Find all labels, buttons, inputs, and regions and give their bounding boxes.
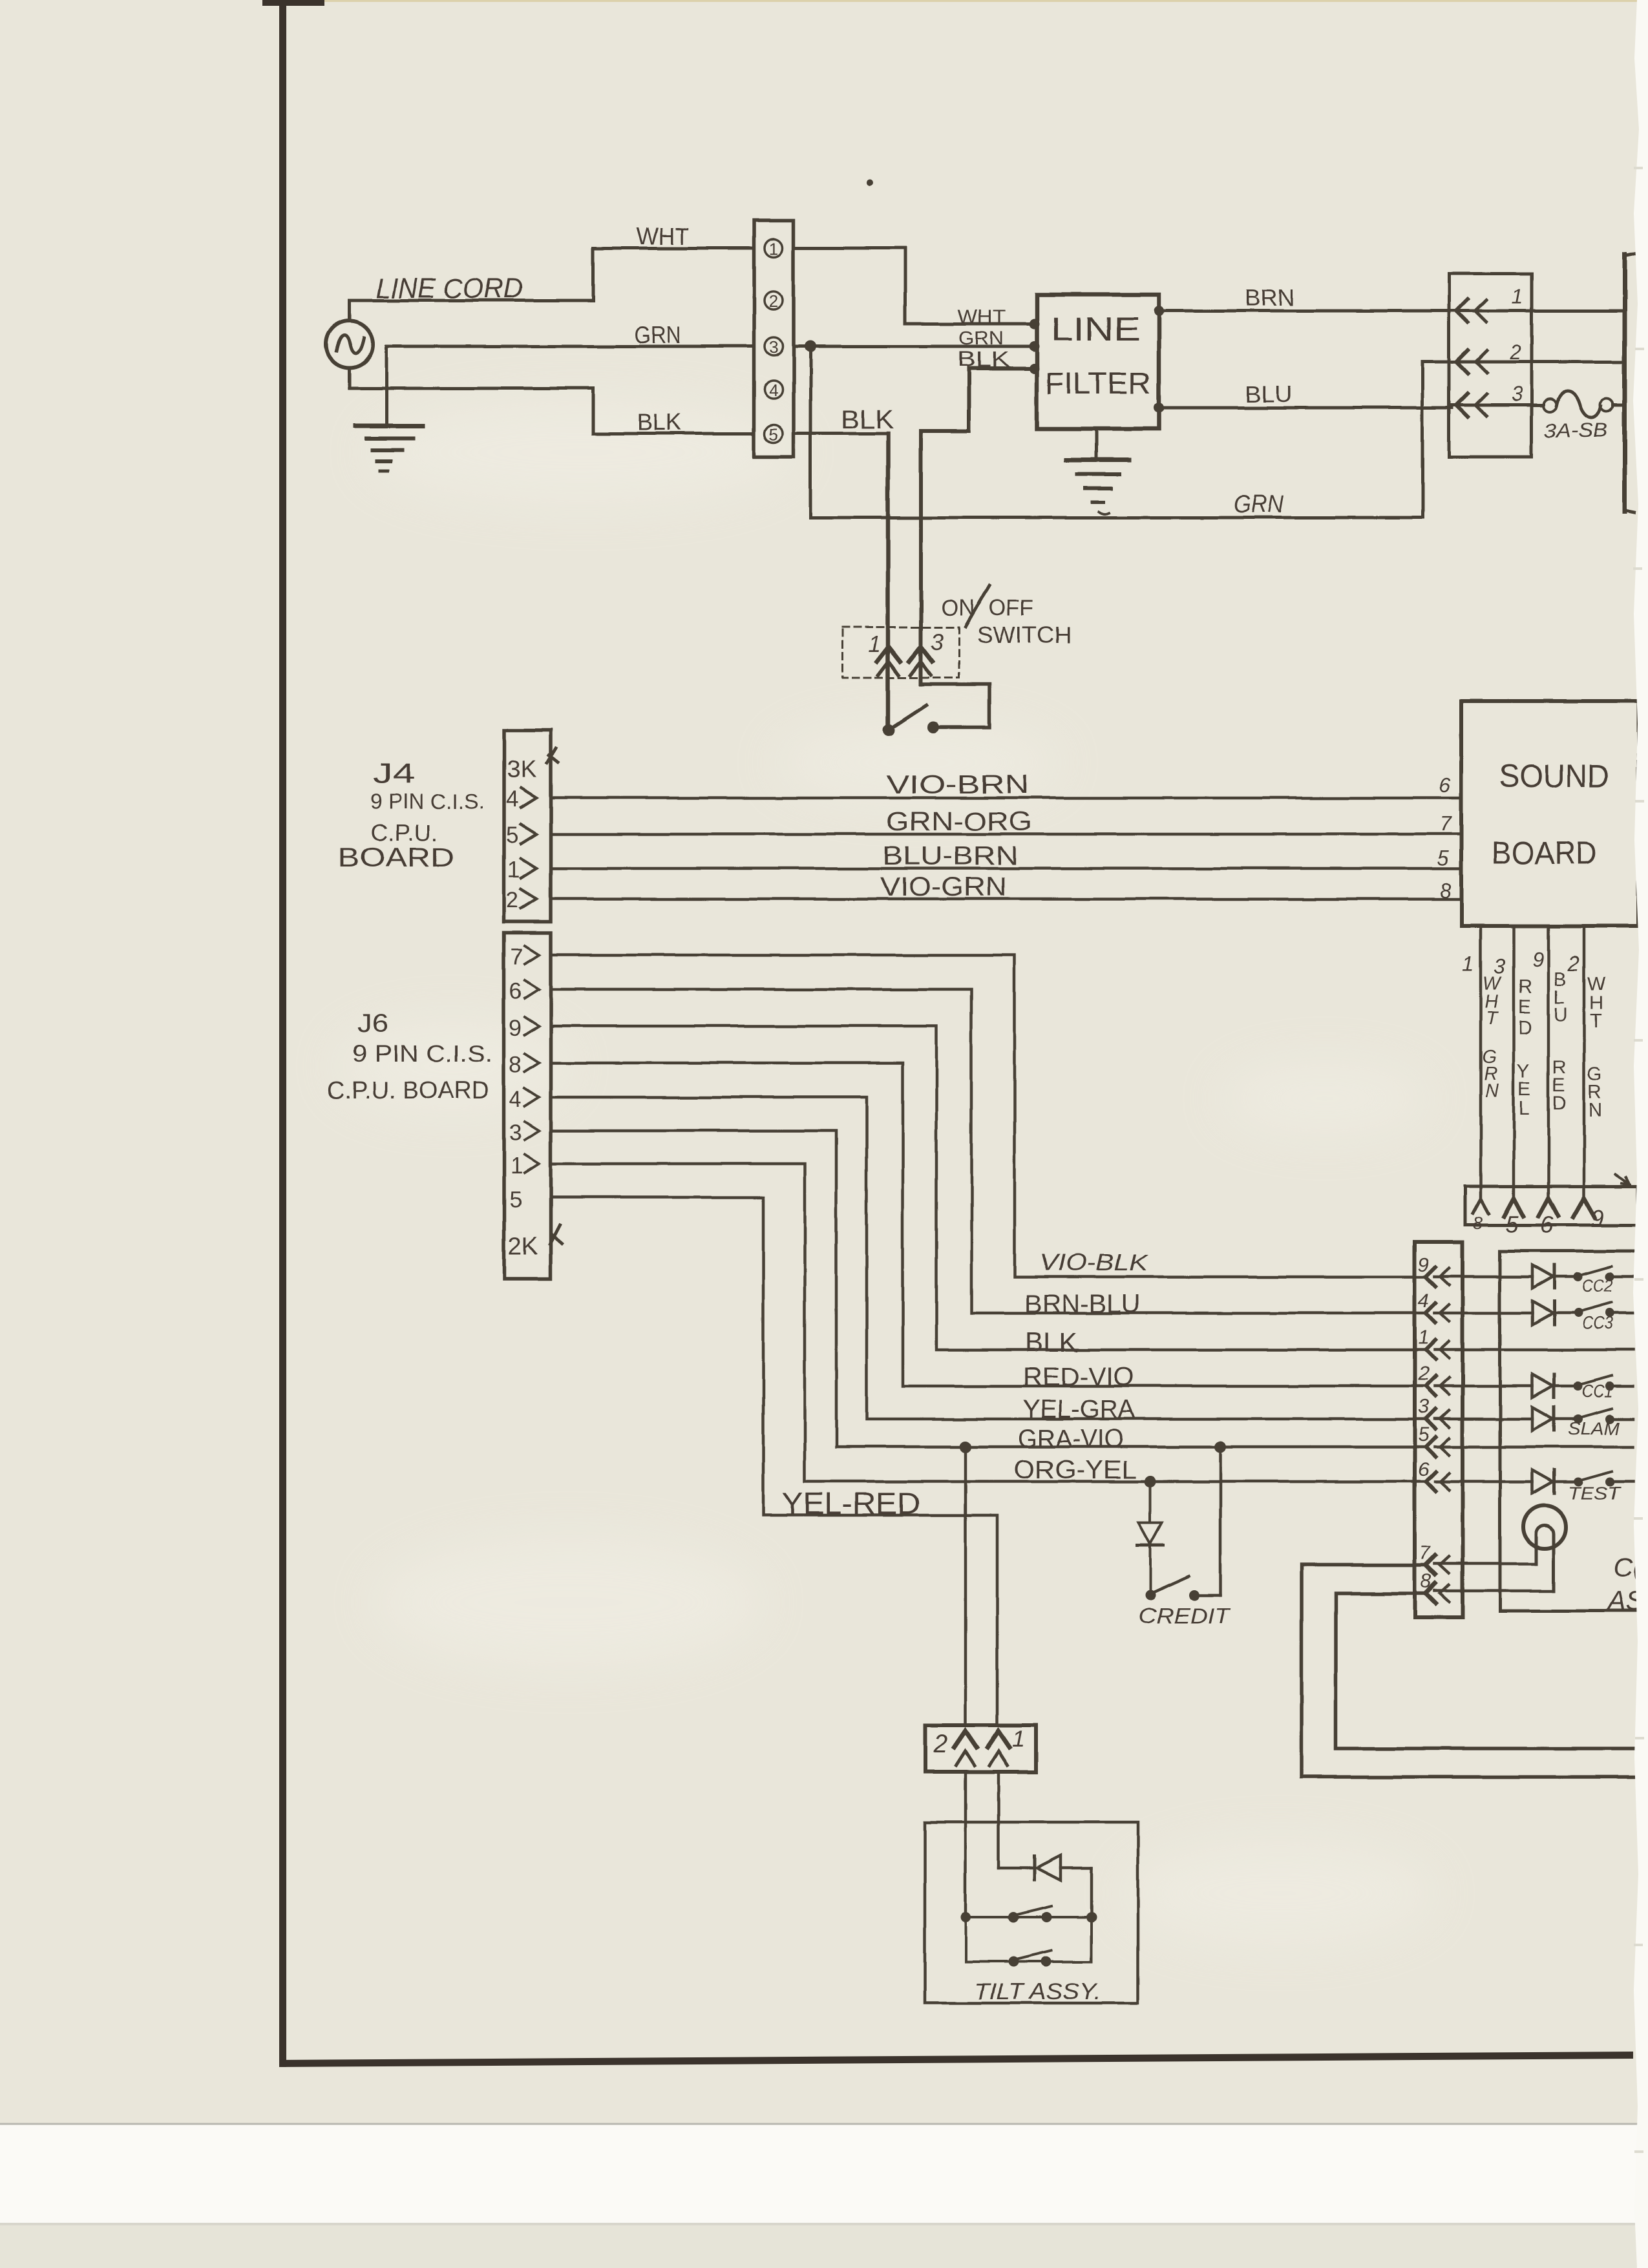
diode CC2 — [1532, 1265, 1553, 1288]
wire switch pin3 up and to filter BLK — [921, 368, 1034, 684]
node filter BLU out — [1154, 403, 1164, 413]
wire AC hot up — [348, 300, 352, 321]
pin 1 arrows — [988, 1731, 1009, 1747]
wire J6-7 VIO-BLK — [551, 955, 1426, 1277]
svg-text:8: 8 — [1473, 1213, 1483, 1233]
svg-text:9 PIN C.I.S.: 9 PIN C.I.S. — [352, 1040, 492, 1067]
wire junction down to tilt connector pin2 — [964, 1447, 967, 1725]
wire BLU — [1159, 406, 1452, 410]
tilt switch row 2 — [966, 1960, 1092, 1963]
svg-text:T: T — [1486, 1009, 1499, 1029]
svg-text:5: 5 — [1437, 846, 1449, 870]
wire J6-1 ORG-YEL — [551, 1164, 1426, 1482]
wire GRN-ORG — [551, 833, 1461, 836]
switch CC3 — [1574, 1308, 1583, 1318]
svg-text:OFF: OFF — [989, 596, 1034, 621]
wire sound pin3 down — [1512, 926, 1516, 1199]
wire pin 2 to diode — [1435, 1385, 1532, 1388]
svg-text:VIO-GRN: VIO-GRN — [880, 872, 1007, 901]
svg-text:9: 9 — [1418, 1253, 1429, 1276]
tilt switch row 1 — [966, 1916, 1092, 1918]
svg-text:7: 7 — [1440, 812, 1452, 835]
node filter WHT — [1029, 319, 1039, 329]
svg-text:2: 2 — [769, 291, 778, 311]
diode TEST — [1532, 1470, 1553, 1493]
svg-text:1: 1 — [507, 857, 520, 883]
wire J6-9 BLK — [551, 1026, 1426, 1350]
svg-text:4: 4 — [506, 787, 518, 812]
top page edge line — [323, 0, 1648, 2]
svg-text:8: 8 — [1439, 879, 1451, 902]
wire BRN — [1159, 310, 1452, 313]
bottom grey-beige strip — [0, 2224, 1648, 2268]
svg-text:1: 1 — [868, 631, 881, 657]
fuse F1 3A-SB — [1543, 399, 1556, 412]
svg-text:4: 4 — [509, 1087, 522, 1112]
switch CC2 — [1574, 1272, 1583, 1281]
switch matrix box — [1500, 1251, 1642, 1611]
svg-text:CREDIT: CREDIT — [1138, 1604, 1231, 1628]
svg-text:GRN-ORG: GRN-ORG — [886, 806, 1032, 836]
svg-text:6: 6 — [1540, 1212, 1554, 1238]
wire pin 9 to diode — [1435, 1276, 1532, 1279]
wire down to credit diode — [1149, 1482, 1152, 1523]
svg-text:BOARD: BOARD — [338, 842, 454, 872]
wire LINE CORD horizontal — [350, 299, 593, 302]
svg-text:SLAM: SLAM — [1568, 1418, 1620, 1438]
svg-text:CC2: CC2 — [1582, 1276, 1613, 1296]
wire J6-6 BRN-BLU — [551, 989, 1426, 1313]
svg-text:D: D — [1552, 1093, 1567, 1115]
wire terminal3 GRN to filter — [794, 345, 1034, 348]
svg-text:2: 2 — [1509, 341, 1521, 364]
diode D1 credit — [1139, 1523, 1162, 1544]
terminal 4 — [765, 381, 783, 399]
svg-text:2K: 2K — [508, 1233, 538, 1260]
terminal 5 — [765, 425, 783, 443]
label WHT GRN vertical 2 — [1587, 973, 1606, 1121]
svg-text:U: U — [1554, 1004, 1568, 1025]
svg-text:9: 9 — [509, 1016, 522, 1041]
svg-text:4: 4 — [769, 381, 778, 400]
wire J6-4 YEL-GRA — [551, 1097, 1426, 1419]
svg-text:R: R — [1518, 976, 1532, 998]
svg-text:BLK: BLK — [637, 409, 682, 436]
svg-text:2: 2 — [506, 888, 518, 913]
wire diode down — [1090, 1868, 1093, 1917]
wire BLK to terminal 5 — [593, 432, 754, 436]
wire GRN down to earth — [385, 346, 388, 426]
svg-text:GRA-VIO: GRA-VIO — [1019, 1425, 1123, 1453]
wire BLU-BRN — [551, 867, 1461, 870]
border frame bottom edge — [279, 2052, 1633, 2067]
svg-text:WHT: WHT — [958, 306, 1006, 328]
wire pin 5 common — [1435, 1445, 1633, 1449]
label BLU RED vertical — [1552, 969, 1568, 1115]
switch blade — [889, 705, 926, 730]
AC line source V1 — [326, 321, 373, 368]
diode CC1 — [1532, 1374, 1553, 1398]
svg-text:WHT: WHT — [637, 223, 689, 249]
svg-text:1: 1 — [511, 1153, 523, 1179]
svg-text:BLU: BLU — [1245, 381, 1293, 407]
svg-text:GRN: GRN — [958, 328, 1004, 349]
wire pin 1 common — [1435, 1349, 1633, 1352]
wire J6-5 YEL-RED — [551, 1197, 997, 1725]
wire sound pin9 down — [1547, 926, 1550, 1199]
wire BLK riser down — [592, 388, 595, 434]
svg-text:2: 2 — [933, 1730, 947, 1758]
wire GRN long run — [810, 346, 1422, 518]
wire sound pin1 down — [1479, 926, 1483, 1199]
svg-text:T: T — [1590, 1011, 1601, 1032]
border frame top stub — [262, 0, 324, 6]
svg-text:5: 5 — [506, 823, 518, 848]
torn white right edge strip — [1633, 0, 1648, 2268]
node ORG-YEL junction — [1145, 1476, 1156, 1487]
svg-text:9 PIN C.I.S.: 9 PIN C.I.S. — [370, 790, 485, 814]
svg-text:3A-SB: 3A-SB — [1544, 419, 1608, 441]
svg-text:N: N — [1485, 1081, 1499, 1102]
tilt assembly box — [925, 1822, 1138, 2003]
switch S1 on/off dashed box — [842, 627, 959, 678]
node GRA-VIO right junction — [1214, 1441, 1226, 1453]
node switch contact — [927, 721, 939, 733]
wire pin8 loop left-down-right — [1336, 1593, 1640, 1748]
svg-text:9: 9 — [1591, 1205, 1605, 1232]
ground symbol mains earth — [355, 424, 423, 428]
pin 2 row — [1452, 361, 1625, 364]
connector J6 — [504, 933, 551, 1279]
wire credit to riser — [1194, 1594, 1220, 1597]
svg-text:J4: J4 — [372, 758, 415, 790]
line filter U1 — [1037, 295, 1159, 429]
wire GRN up to connector pin2 — [1422, 362, 1452, 518]
diode D2 tilt — [1033, 1856, 1036, 1880]
svg-text:2: 2 — [1567, 952, 1579, 975]
node switch pole — [883, 724, 894, 735]
bottom white band — [0, 2124, 1648, 2224]
connector tilt 2-pin — [925, 1725, 1036, 1772]
node filter GRN — [1029, 341, 1039, 352]
svg-text:4: 4 — [1418, 1289, 1429, 1312]
connector below sound board — [1465, 1186, 1638, 1225]
svg-text:3K: 3K — [507, 756, 536, 783]
svg-text:LINE: LINE — [1051, 311, 1140, 348]
connector J4 — [504, 730, 551, 922]
svg-text:3: 3 — [931, 629, 944, 655]
lamp coin lockout — [1523, 1506, 1566, 1548]
svg-text:8: 8 — [509, 1053, 522, 1078]
svg-text:FILTER: FILTER — [1045, 366, 1151, 400]
paper blotches — [336, 401, 1435, 1945]
wire pin 6 to diode — [1435, 1480, 1532, 1484]
svg-text:VIO-BRN: VIO-BRN — [886, 770, 1030, 799]
terminal 1 — [765, 239, 783, 257]
diode SLAM — [1532, 1407, 1553, 1431]
switch SLAM — [1574, 1414, 1583, 1423]
node credit right — [1189, 1590, 1199, 1601]
wire pin2 down to tilt — [964, 1772, 967, 1917]
node GRN junction — [805, 341, 816, 352]
svg-text:5: 5 — [509, 1187, 522, 1212]
svg-text:3: 3 — [1418, 1395, 1429, 1418]
wire terminal5 BLK — [794, 432, 888, 436]
label WHT GRN vertical — [1482, 974, 1502, 1102]
svg-text:W: W — [1587, 973, 1606, 994]
svg-text:5: 5 — [769, 425, 778, 444]
wire row2 riser — [1090, 1917, 1093, 1962]
transformer bus edge — [1623, 255, 1627, 512]
wire pin1 down to diode — [997, 1772, 1000, 1868]
wire terminal1 to WHT jog — [794, 248, 1034, 324]
wire pin7 to lamp — [1435, 1562, 1536, 1566]
wire sound pin2 down — [1583, 926, 1586, 1199]
wire pin8 to lamp — [1435, 1590, 1554, 1593]
node filter BRN out — [1154, 306, 1164, 316]
svg-text:E: E — [1518, 996, 1531, 1018]
pin 1 row — [1452, 310, 1625, 313]
pin 9 arrow — [1573, 1198, 1595, 1217]
svg-text:3: 3 — [509, 1120, 522, 1146]
svg-text:VIO-BLK: VIO-BLK — [1039, 1249, 1149, 1276]
border frame left edge — [279, 0, 286, 2067]
svg-text:ORG-YEL: ORG-YEL — [1014, 1456, 1137, 1484]
connector P1 fuse block — [1449, 273, 1532, 457]
svg-text:BLU-BRN: BLU-BRN — [883, 841, 1018, 870]
svg-text:YEL-RED: YEL-RED — [782, 1486, 920, 1520]
speck — [867, 179, 873, 185]
wire VIO-GRN — [551, 898, 1461, 901]
svg-text:BRN-BLU: BRN-BLU — [1025, 1290, 1140, 1318]
svg-text:1: 1 — [769, 239, 778, 258]
pin 1 arrows — [877, 647, 900, 662]
wire riser to GRA-VIO — [1219, 1447, 1222, 1595]
svg-text:BLK: BLK — [1025, 1327, 1077, 1358]
svg-text:C.P.U. BOARD: C.P.U. BOARD — [327, 1077, 489, 1104]
arrow into connector top line — [1616, 1175, 1630, 1184]
node credit left — [1145, 1590, 1156, 1601]
pin 3 arrows — [909, 647, 933, 662]
connector strip P2 — [1415, 1242, 1463, 1617]
wire pin 3 to diode — [1435, 1418, 1532, 1421]
pin 6 arrow — [1539, 1198, 1558, 1216]
svg-text:6: 6 — [1439, 773, 1450, 797]
terminal 3 — [765, 337, 783, 355]
svg-text:D: D — [1518, 1017, 1532, 1038]
wire row1 to row2 — [964, 1917, 967, 1962]
pin 3 row — [1452, 404, 1543, 407]
label RED YEL vertical — [1517, 976, 1532, 1119]
wire AC neutral down — [348, 368, 352, 388]
sound board U2 — [1461, 701, 1638, 926]
svg-text:N: N — [1589, 1100, 1603, 1121]
svg-text:BOARD: BOARD — [1492, 835, 1596, 871]
svg-text:1: 1 — [1012, 1725, 1025, 1752]
svg-text:BLK: BLK — [841, 404, 894, 434]
svg-text:CC1: CC1 — [1582, 1381, 1613, 1401]
wire neutral horizontal — [350, 387, 593, 390]
node filter BLK — [1029, 363, 1039, 373]
pin 2 arrows — [955, 1731, 977, 1747]
svg-text:YEL-GRA: YEL-GRA — [1023, 1395, 1135, 1423]
wire WHT to terminal 1 — [593, 247, 754, 250]
svg-text:L: L — [1519, 1098, 1530, 1119]
svg-text:3: 3 — [1511, 383, 1523, 406]
wire pin7 loop left-down-right — [1302, 1565, 1640, 1777]
svg-text:TILT ASSY.: TILT ASSY. — [974, 1979, 1101, 2004]
pin 5 arrow — [1504, 1198, 1523, 1216]
wire diode to credit switch — [1149, 1546, 1152, 1592]
svg-text:1: 1 — [1512, 285, 1523, 308]
terminal 2 — [765, 291, 783, 310]
wire to tilt diode — [998, 1867, 1032, 1870]
svg-text:GRN: GRN — [1234, 491, 1285, 518]
pin 8 arrow — [1473, 1199, 1488, 1213]
svg-text:GRN: GRN — [635, 322, 681, 348]
diode CC3 — [1532, 1301, 1553, 1325]
svg-text:LINE CORD: LINE CORD — [375, 273, 523, 304]
svg-text:RED-VIO: RED-VIO — [1023, 1363, 1134, 1391]
wire switch throw loop — [921, 675, 989, 727]
wire WHT riser — [592, 248, 595, 300]
wire BLK down to switch pin1 — [886, 434, 891, 728]
switch TEST — [1574, 1477, 1583, 1486]
wire J6-3 GRA-VIO — [551, 1131, 1426, 1447]
svg-text:6: 6 — [509, 979, 522, 1004]
svg-text:J6: J6 — [357, 1009, 388, 1038]
node GRA-VIO junction — [960, 1441, 971, 1453]
terminal strip TS1 — [754, 220, 794, 457]
svg-text:3: 3 — [769, 337, 778, 357]
svg-text:2: 2 — [1417, 1362, 1429, 1385]
svg-text:CC3: CC3 — [1582, 1313, 1613, 1333]
wire GRN to terminal 3 — [386, 345, 754, 348]
svg-text:9: 9 — [1532, 949, 1544, 972]
svg-text:7: 7 — [511, 945, 523, 970]
svg-text:SOUND: SOUND — [1499, 758, 1609, 794]
switch credit blade — [1152, 1577, 1189, 1593]
switch CC1 — [1574, 1381, 1583, 1391]
svg-text:5: 5 — [1505, 1211, 1519, 1237]
svg-text:TEST: TEST — [1568, 1483, 1621, 1503]
svg-text:BRN: BRN — [1245, 284, 1294, 311]
svg-text:SWITCH: SWITCH — [977, 623, 1072, 648]
svg-text:1: 1 — [1418, 1326, 1429, 1349]
wire J6-8 RED-VIO — [551, 1063, 1426, 1386]
wire pin 4 to diode — [1435, 1312, 1532, 1315]
wire VIO-BRN — [551, 797, 1461, 800]
svg-text:1: 1 — [1463, 952, 1474, 975]
ground symbol filter earth — [1095, 429, 1098, 460]
